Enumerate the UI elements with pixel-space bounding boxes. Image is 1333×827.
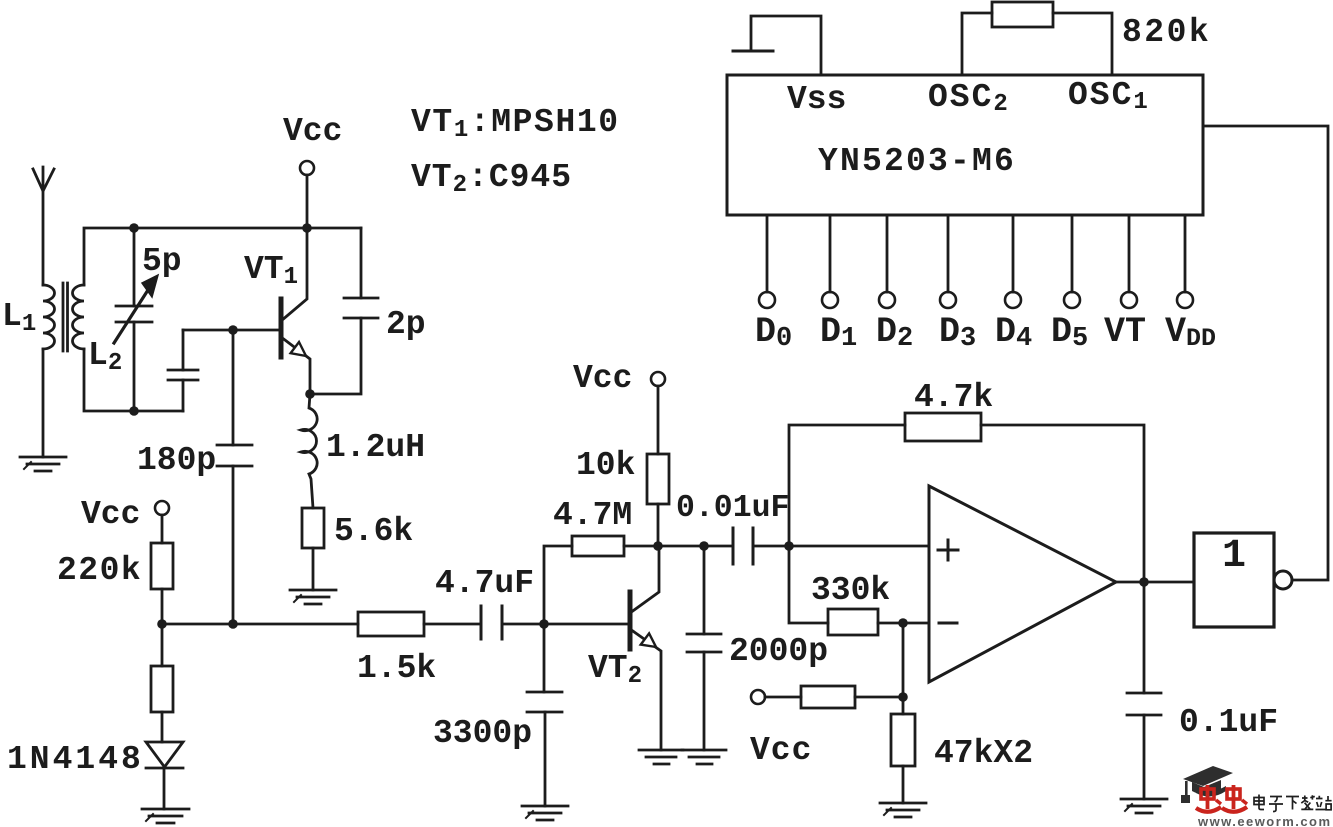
wire: [84, 228, 361, 285]
ground: [639, 750, 683, 764]
svg-text:1: 1: [1222, 534, 1246, 579]
wire: [84, 349, 183, 411]
wire: Vss pin hook: [751, 16, 821, 75]
op-amp U1: [929, 486, 1116, 682]
resistor 4.7M: [544, 536, 658, 624]
terminal Vcc (VT1 collector supply): [300, 161, 314, 175]
pin D4: [1005, 215, 1021, 308]
wire: [657, 504, 660, 546]
ground (Vss bar): [733, 50, 773, 53]
pin VT: [1121, 215, 1137, 308]
wire: [161, 624, 164, 666]
svg-text:820k: 820k: [1122, 14, 1211, 51]
resistor (1N4148 series): [151, 666, 173, 712]
wire: OSC2 pin: [962, 13, 992, 75]
wire: [658, 545, 732, 548]
node: [898, 618, 908, 628]
transistor VT1: [281, 228, 310, 394]
svg-text:VT1:MPSH10: VT1:MPSH10: [411, 104, 620, 144]
svg-text:5.6k: 5.6k: [334, 513, 413, 550]
svg-text:Vcc: Vcc: [573, 360, 632, 397]
capacitor C 5p (variable): [114, 228, 158, 411]
terminal Vcc (220k bias): [155, 501, 169, 515]
svg-text:1.5k: 1.5k: [357, 650, 436, 687]
watermark brand 虫虫 (red): [1196, 785, 1247, 812]
wire: [1203, 126, 1328, 580]
wire: main bus: [162, 623, 358, 626]
svg-text:220k: 220k: [57, 552, 142, 589]
svg-text:47kX2: 47kX2: [934, 735, 1033, 772]
terminal Vcc (10k supply): [651, 372, 665, 386]
svg-text:0.01uF: 0.01uF: [676, 491, 789, 526]
wire: [312, 548, 315, 590]
wire: [42, 349, 45, 457]
svg-text:0.1uF: 0.1uF: [1179, 704, 1278, 741]
resistor (bias, 47k x2 upper): [801, 686, 855, 708]
resistor 47kX2: [891, 697, 915, 803]
svg-text:4.7M: 4.7M: [553, 497, 632, 534]
ground: [522, 806, 568, 820]
wire: [161, 589, 164, 624]
buffer gate 1: [1194, 533, 1292, 627]
antenna: [33, 167, 54, 285]
ground: [142, 809, 189, 823]
svg-text:VT: VT: [1104, 312, 1146, 352]
capacitor (base coupling): [168, 330, 198, 411]
resistor 220k: [151, 543, 173, 589]
capacitor 0.1uF: [1127, 582, 1161, 799]
wire: [765, 696, 801, 699]
resistor 5.6k: [302, 508, 324, 548]
pin D1: [822, 215, 838, 308]
node: [228, 325, 238, 335]
pin D5: [1064, 215, 1080, 308]
node: [898, 692, 908, 702]
ground: [290, 590, 336, 604]
svg-text:Vcc: Vcc: [283, 113, 342, 150]
node: [539, 619, 549, 629]
wire: VT1 base: [183, 329, 279, 332]
svg-text:www.eeworm.com: www.eeworm.com: [1197, 814, 1331, 827]
capacitor 4.7uF: [481, 606, 502, 639]
pin VDD: [1177, 215, 1193, 308]
resistor 820k: [992, 2, 1053, 27]
svg-text:YN5203-M6: YN5203-M6: [818, 143, 1016, 180]
capacitor 0.01uF: [733, 528, 753, 564]
ground: [682, 750, 726, 764]
wire: [161, 515, 164, 543]
svg-text:180p: 180p: [137, 442, 216, 479]
wire: [161, 712, 164, 742]
node: VT1 emitter junction: [305, 389, 315, 399]
capacitor 180p: [217, 330, 252, 624]
capacitor 2p: [310, 228, 378, 394]
inductor 1.2uH: [301, 394, 317, 508]
pin D2: [879, 215, 895, 308]
node: [228, 619, 238, 629]
node: tank top junction: [129, 223, 139, 233]
svg-text:1.2uH: 1.2uH: [326, 429, 425, 466]
node: [1139, 577, 1149, 587]
watermark text 电子下载站: [1254, 795, 1332, 812]
svg-text:5p: 5p: [142, 243, 182, 280]
inductor L1: [43, 285, 55, 349]
wire: [753, 545, 928, 548]
pin D3: [940, 215, 956, 308]
diode 1N4148: [146, 742, 183, 809]
svg-text:3300p: 3300p: [433, 715, 532, 752]
wire: [902, 623, 905, 697]
node: [653, 541, 663, 551]
node: [157, 619, 167, 629]
wire: [306, 175, 309, 228]
svg-text:Vcc: Vcc: [81, 496, 140, 533]
resistor 330k: [828, 609, 878, 635]
svg-text:Vcc: Vcc: [750, 732, 812, 769]
svg-text:1N4148: 1N4148: [7, 741, 144, 778]
wire: [981, 425, 1144, 582]
node: [699, 541, 709, 551]
svg-text:330k: 330k: [811, 572, 890, 609]
svg-text:VT2:C945: VT2:C945: [411, 159, 572, 199]
wire: [502, 623, 544, 626]
capacitor 2000p: [687, 546, 721, 750]
transformer core: [63, 283, 68, 351]
svg-text:2000p: 2000p: [729, 633, 828, 670]
wire: [878, 622, 928, 625]
resistor 10k: [647, 454, 669, 504]
node: tank bottom junction: [129, 406, 139, 416]
transistor VT2: [630, 546, 661, 750]
svg-text:2p: 2p: [386, 306, 426, 343]
wire: [424, 623, 480, 626]
svg-text:4.7k: 4.7k: [914, 379, 993, 416]
svg-text:Vss: Vss: [787, 81, 846, 118]
wire: [855, 696, 903, 699]
capacitor 3300p: [527, 624, 562, 806]
pin D0: [759, 215, 775, 308]
wire: VT2 base: [544, 623, 628, 626]
watermark graduation cap: [1181, 766, 1233, 803]
terminal Vcc (bottom bias): [751, 690, 765, 704]
wire: inverting branch: [789, 546, 828, 623]
resistor 1.5k: [358, 612, 424, 636]
wire: op-amp output: [1116, 581, 1194, 584]
ground: [20, 457, 66, 471]
node: [302, 223, 312, 233]
ground: [880, 803, 926, 817]
wire: OSC1 pin: [1053, 13, 1112, 75]
wire: feedback riser: [789, 425, 905, 546]
IC YN5203-M6: [727, 75, 1203, 215]
node: [784, 541, 794, 551]
svg-text:4.7uF: 4.7uF: [435, 565, 534, 602]
wire: [657, 386, 660, 454]
svg-text:10k: 10k: [576, 447, 635, 484]
inductor L2: [73, 285, 85, 349]
ground: [1121, 799, 1167, 813]
resistor 4.7k: [905, 413, 981, 441]
